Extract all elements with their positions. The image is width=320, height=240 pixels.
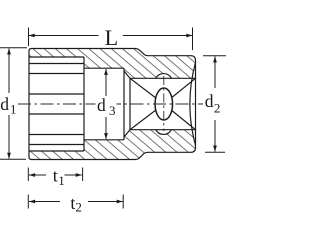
svg-text:d: d — [205, 91, 214, 111]
svg-text:d: d — [97, 95, 106, 115]
svg-text:1: 1 — [10, 102, 17, 117]
svg-text:2: 2 — [214, 101, 221, 116]
svg-text:1: 1 — [58, 173, 64, 188]
svg-text:L: L — [105, 25, 118, 50]
svg-text:2: 2 — [75, 200, 82, 215]
svg-text:t: t — [53, 166, 58, 186]
svg-text:3: 3 — [109, 103, 116, 118]
svg-text:d: d — [0, 94, 9, 114]
